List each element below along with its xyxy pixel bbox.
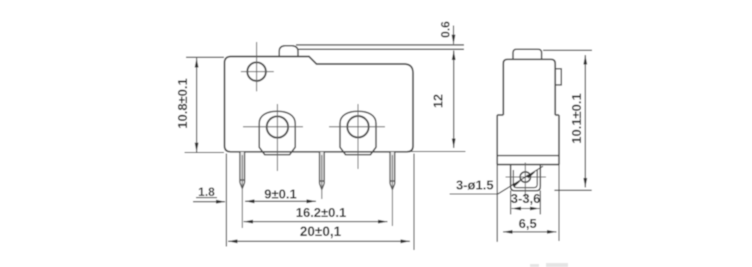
svg-text:9±0.1: 9±0.1 — [264, 186, 296, 201]
svg-text:0.6: 0.6 — [439, 21, 453, 38]
svg-text:20±0,1: 20±0,1 — [300, 224, 342, 239]
svg-text:3-3,6: 3-3,6 — [511, 191, 541, 206]
svg-text:12: 12 — [432, 94, 446, 108]
svg-text:16.2±0.1: 16.2±0.1 — [296, 205, 347, 220]
svg-text:6,5: 6,5 — [519, 216, 537, 231]
svg-text:10.1±0.1: 10.1±0.1 — [569, 93, 584, 144]
svg-text:10.8±0.1: 10.8±0.1 — [175, 78, 190, 129]
svg-text:3-ø1.5: 3-ø1.5 — [456, 177, 494, 192]
svg-text:1.8: 1.8 — [198, 185, 215, 199]
